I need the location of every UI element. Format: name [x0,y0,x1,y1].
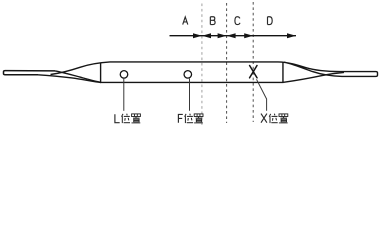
leader line L [123,79,125,111]
X mark on datum 3 [250,66,257,78]
glyph 置 of X位置 [279,114,288,123]
arrowhead left at datum 1 [202,33,211,38]
glyph 置 of F位置 [194,114,203,123]
right cone bottom edge merging into right lead top [284,72,345,82]
glyph 位 of X位置 [269,114,278,123]
hole circle L [120,71,128,79]
datum dashed line 1 (gray, at x=202) [201,4,203,127]
arrowhead right at datum 3 [244,33,253,38]
label L of L位置 [115,114,120,122]
arrowhead right at datum 2 [218,33,227,38]
dimension label D [268,17,273,25]
arrowhead left at datum 2 [227,33,236,38]
dimension label A [183,17,188,25]
glyph 位 of F位置 [185,114,194,123]
arrowhead right at datum 1 [193,33,202,38]
dimension chain line [170,35,297,37]
leader line X [257,79,267,111]
datum dashed line 3 (at x=253.2) [252,2,254,122]
body bottom outline [101,81,284,83]
leader line F [189,79,191,111]
glyph 置 of L位置 [132,114,141,123]
hole circle F [184,71,192,79]
dimension label B [210,17,215,25]
dimension label C [235,17,240,25]
body top outline with right cone and right lead [51,62,378,77]
arrowhead right at line end (D) [287,33,296,38]
label F of F位置 [178,114,182,122]
body right chord [282,62,284,82]
body left chord [100,63,102,83]
datum dashed line 2 (at x=226.6) [226,3,228,123]
left lead bottom edge sweeping to body bottom corner [38,75,101,83]
left flat lead [4,71,56,75]
left lead top edge sweeping to body bottom corner [55,71,101,82]
label X of X位置 [261,114,267,123]
glyph 位 of L位置 [122,114,131,123]
